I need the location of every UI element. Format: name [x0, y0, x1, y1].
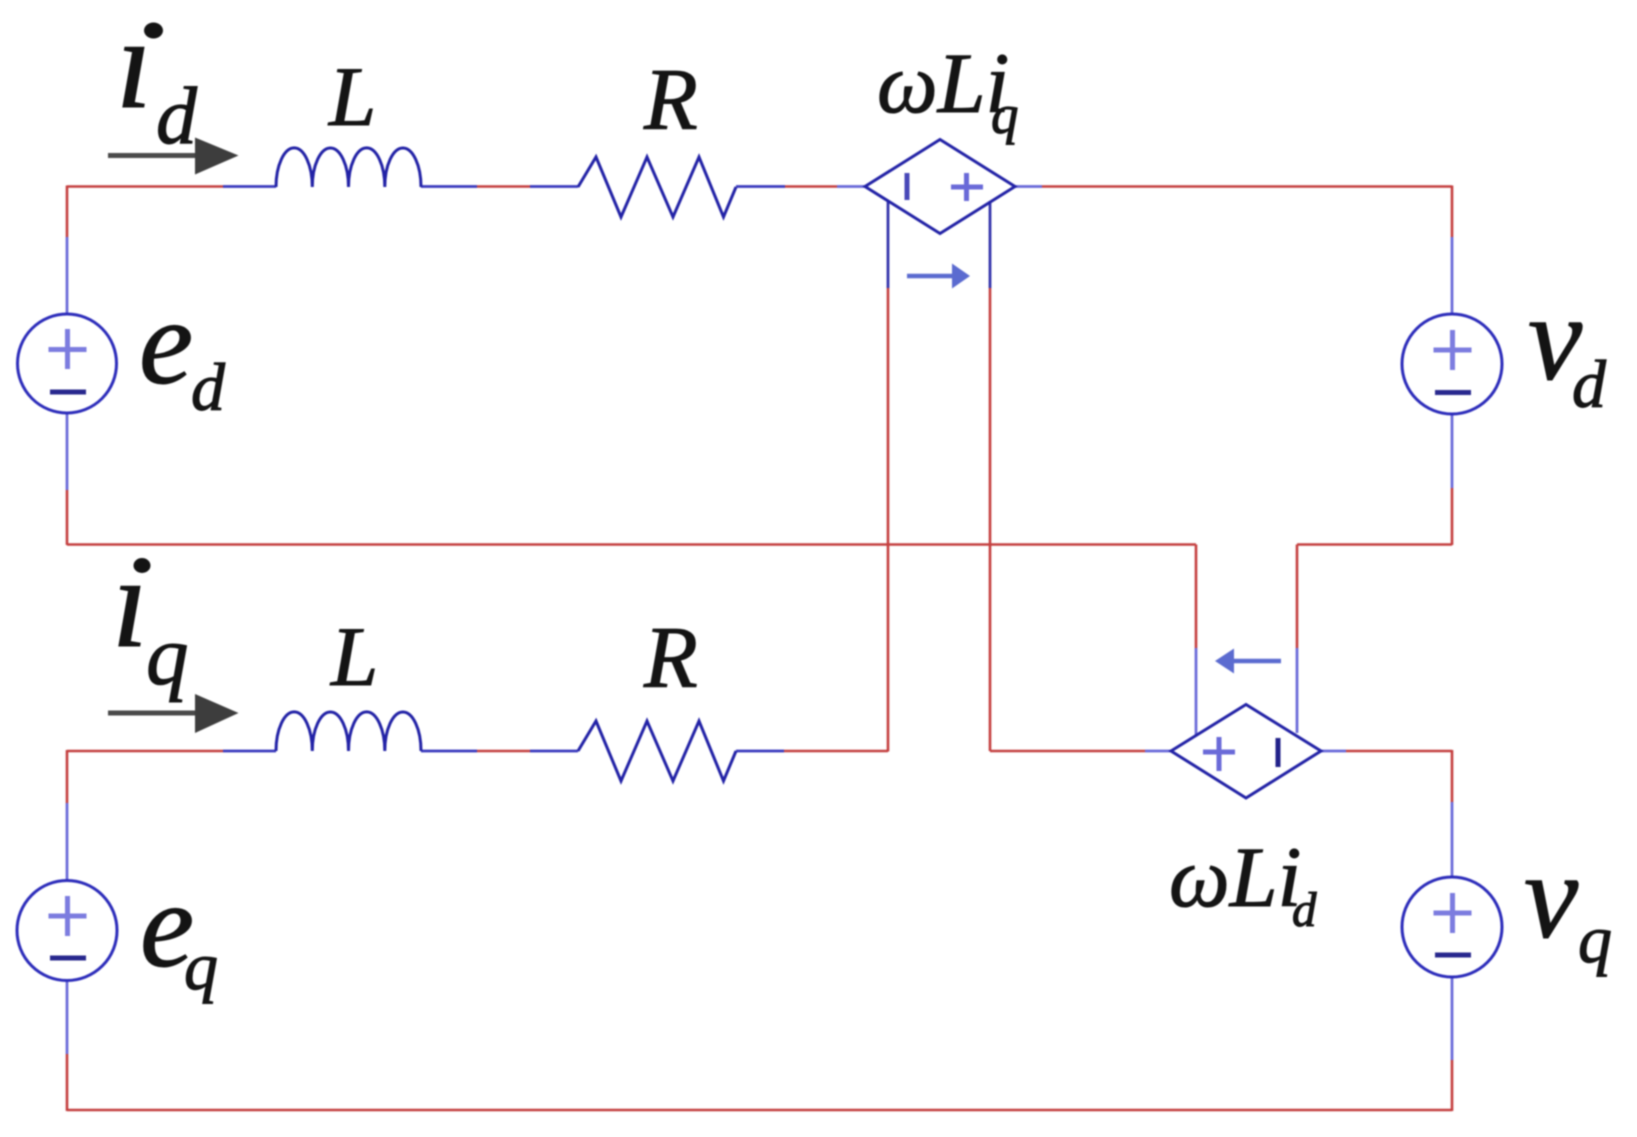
wire q-loop top mid3 [990, 750, 1145, 753]
svg-text:d: d [1572, 346, 1607, 422]
svg-text:d: d [191, 349, 226, 425]
lead v_d bottom [1451, 414, 1454, 488]
voltage source e_d circle [18, 314, 117, 413]
lead resistor R1 right [736, 185, 785, 188]
v_q plus [1434, 893, 1472, 933]
wire left vertical lower (from e_d) [66, 490, 69, 545]
v_d minus [1435, 390, 1471, 395]
U2 minus bar (rotated) [1276, 738, 1281, 767]
voltage source v_d circle [1402, 314, 1502, 414]
wire d-loop top right [1042, 185, 1452, 188]
blue arrow U2 (left) [1231, 659, 1281, 664]
lead diamond U1 bottom-left drop [887, 201, 890, 288]
svg-text:ωLi: ωLi [877, 35, 1009, 131]
lead diamond U1 bottom-right drop [989, 201, 992, 288]
lead diamond U1 left [837, 185, 866, 188]
lead inductor L1 left [223, 185, 276, 188]
wire d-loop top mid1 [477, 185, 530, 188]
lead e_d top [66, 237, 69, 314]
e_q minus [50, 956, 86, 961]
blue arrow U1 (right) [907, 274, 955, 279]
svg-text:q: q [991, 84, 1019, 145]
lead inductor L2 right [421, 750, 477, 753]
lead resistor R1 left [530, 185, 578, 188]
svg-text:ı: ı [112, 531, 148, 675]
resistor R2 (q-axis) [578, 721, 736, 781]
dependent source U2 diamond (wLid) [1171, 705, 1321, 799]
lead diamond U2 right [1320, 750, 1346, 753]
wire jog vertical x1297 [1296, 545, 1299, 649]
wire q-loop left vertical upper [66, 750, 69, 803]
wire left vertical upper (to e_d) [66, 186, 69, 238]
e_d plus [49, 329, 87, 369]
dependent source U1 diamond (wLiq) [865, 140, 1015, 234]
lead diamond U2 top-right drop [1296, 648, 1299, 733]
lead diamond U1 right [1014, 185, 1042, 188]
wire q-loop left vertical lower [66, 1054, 69, 1111]
wire q-loop right vertical lower [1451, 1060, 1454, 1111]
inductor L2 (q-axis) [276, 712, 421, 751]
wire d-loop top mid2 [735, 186, 737, 188]
svg-text:ωLi: ωLi [1169, 829, 1301, 925]
lead v_d top [1451, 237, 1454, 314]
resistor R1 (d-axis) [578, 157, 736, 217]
inductor L1 (d-axis) [276, 148, 421, 187]
lead v_q top [1451, 802, 1454, 877]
U1 plus sign [951, 173, 983, 201]
lead resistor R2 right [736, 750, 784, 753]
lead v_q bottom [1451, 977, 1454, 1060]
svg-text:ı: ı [116, 0, 152, 136]
lead inductor L2 left [223, 750, 276, 753]
wire q-loop right vertical upper [1451, 750, 1454, 802]
voltage source e_q circle [17, 881, 117, 981]
svg-text:e: e [139, 275, 193, 410]
lead diamond U2 left [1145, 750, 1172, 753]
wire right vertical upper (to v_d) [1451, 186, 1454, 238]
wire crossing vertical x990 [989, 288, 992, 751]
svg-text:q: q [1578, 901, 1612, 977]
wire q-loop bottom [67, 1109, 1452, 1112]
svg-text:v: v [1524, 829, 1579, 964]
U1 minus bar (rotated) [905, 173, 910, 200]
wire jog vertical x1196 [1195, 545, 1198, 649]
svg-text:R: R [643, 610, 698, 707]
svg-text:L: L [328, 50, 376, 144]
v_d plus [1434, 330, 1472, 370]
svg-text:d: d [156, 70, 198, 161]
wire d-loop top left horizontal [67, 185, 223, 188]
svg-text:L: L [330, 610, 378, 704]
svg-text:d: d [1292, 882, 1317, 937]
current arrow i_d [108, 153, 198, 158]
wire q-loop top left [67, 750, 223, 753]
e_q plus [49, 896, 87, 936]
lead diamond U2 top-left drop [1195, 648, 1198, 735]
svg-text:q: q [146, 609, 189, 703]
wire d-loop bottom long [67, 543, 1196, 546]
wire d-loop bottom right segment [1297, 543, 1452, 546]
wire right vertical lower (from v_d) [1451, 488, 1454, 545]
v_q minus [1435, 953, 1471, 958]
wire q-loop top mid2 [784, 750, 888, 753]
svg-text:q: q [184, 928, 218, 1004]
lead resistor R2 left [530, 750, 578, 753]
lead e_q bottom [66, 981, 69, 1054]
lead inductor L1 right [421, 185, 477, 188]
U2 plus sign [1203, 737, 1235, 771]
lead e_d bottom [66, 413, 69, 490]
wire d-loop top mid3 [785, 185, 837, 188]
wire q-loop top mid1 [477, 750, 530, 753]
svg-text:R: R [643, 52, 698, 149]
current arrow i_q [108, 711, 198, 716]
wire q-loop top right [1346, 750, 1452, 753]
e_d minus [50, 390, 86, 395]
lead e_q top [66, 803, 69, 880]
wire crossing vertical x888 [887, 288, 890, 752]
voltage source v_q circle [1402, 877, 1502, 977]
